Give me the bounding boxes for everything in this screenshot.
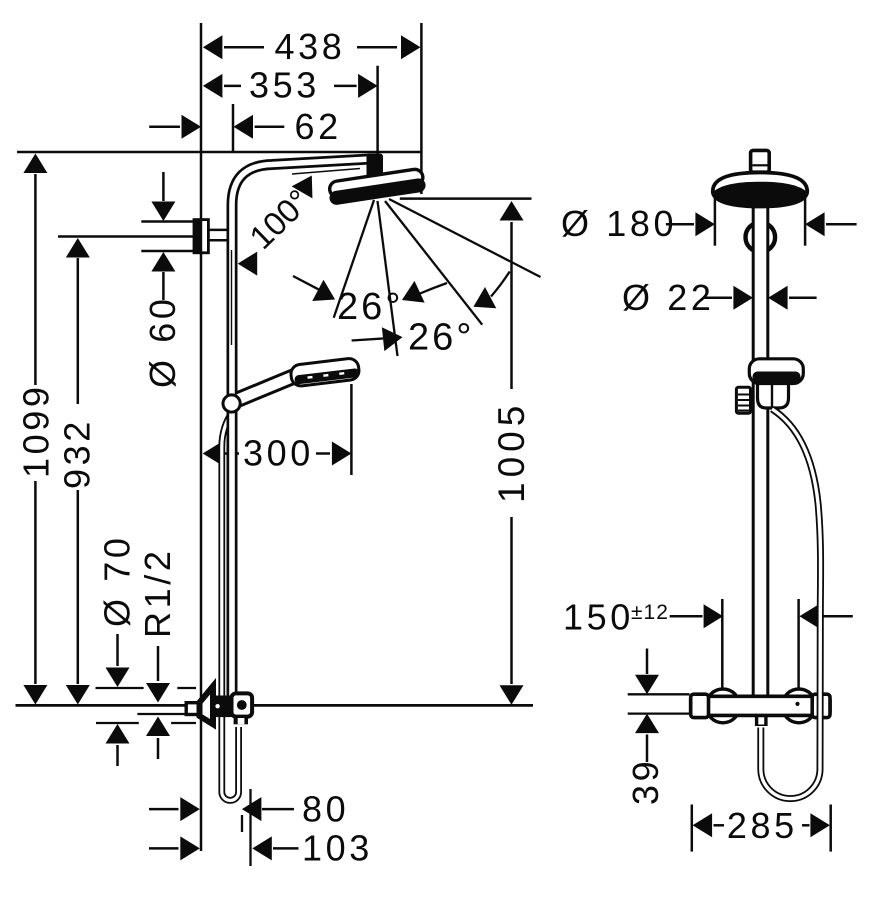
thermostat valve body (right figure) bbox=[691, 694, 830, 717]
spray line 4 bbox=[389, 199, 541, 277]
dimension R1/2 bbox=[137, 548, 186, 759]
svg-text:353: 353 bbox=[249, 65, 320, 106]
riser pipe (right figure) bbox=[753, 171, 768, 697]
dimension diameter 180 bbox=[561, 203, 857, 244]
pivot stub on head (right figure) bbox=[751, 150, 770, 172]
dimension diameter 22 bbox=[622, 277, 817, 318]
wire extension line 62 bbox=[232, 104, 235, 152]
dimension 62 bbox=[149, 106, 342, 147]
dimension 80 bbox=[149, 789, 349, 833]
dimension 150 plus/minus 12 bbox=[563, 597, 853, 638]
dimension angle 100 degrees bbox=[238, 170, 322, 276]
spray line 1 bbox=[334, 200, 374, 318]
dimension 39 bbox=[625, 649, 690, 806]
svg-text:300: 300 bbox=[243, 433, 314, 474]
wire 932 reference line bbox=[58, 235, 194, 238]
dimension angle 26 degrees (right pair) bbox=[352, 272, 510, 359]
dimension 438 bbox=[203, 26, 421, 67]
svg-text:Ø 60: Ø 60 bbox=[142, 296, 183, 388]
dimension diameter 70 bbox=[96, 535, 197, 766]
wire baseline (left figure) bbox=[16, 704, 534, 707]
wall bracket circle (right figure) bbox=[746, 222, 776, 252]
wire extension lines 150 bbox=[722, 599, 798, 691]
overhead shower head (right figure) bbox=[713, 173, 807, 207]
spray line 2 bbox=[378, 201, 398, 356]
svg-text:80: 80 bbox=[302, 789, 349, 830]
hose outlet tab (right figure) bbox=[755, 715, 768, 726]
svg-text:932: 932 bbox=[57, 418, 98, 489]
svg-text:39: 39 bbox=[625, 758, 666, 805]
supply valve (left figure) bbox=[186, 686, 252, 724]
dimension angle 26 degrees (left pair) bbox=[293, 276, 447, 328]
svg-text:62: 62 bbox=[295, 106, 342, 147]
dimension 1099 bbox=[16, 154, 57, 705]
wire extension lines diameter 180 bbox=[715, 196, 805, 246]
svg-text:Ø 70: Ø 70 bbox=[97, 535, 138, 627]
hose (right figure) bbox=[761, 409, 821, 799]
overhead shower head (left figure) bbox=[327, 154, 426, 206]
hand shower (left figure) bbox=[290, 358, 360, 387]
wire 1005 top reference line bbox=[400, 197, 532, 200]
dimension diameter 60 bbox=[142, 172, 183, 388]
svg-text:285: 285 bbox=[727, 805, 798, 846]
svg-text:Ø 180: Ø 180 bbox=[561, 203, 677, 244]
svg-text:150: 150 bbox=[563, 597, 634, 638]
shower riser pipe and arm (left figure) bbox=[232, 159, 371, 697]
dimension 103 bbox=[149, 789, 373, 869]
wire extension line 438 right bbox=[420, 23, 423, 194]
svg-text:1005: 1005 bbox=[491, 401, 532, 503]
dimension 932 bbox=[57, 238, 98, 705]
svg-text:26°: 26° bbox=[337, 286, 403, 328]
dimension 300 bbox=[203, 384, 352, 475]
svg-text:R1/2: R1/2 bbox=[137, 548, 178, 638]
wire extension line 353 bbox=[376, 66, 379, 155]
wire wall reference line (left figure) bbox=[200, 23, 203, 851]
svg-text:±12: ±12 bbox=[631, 601, 669, 624]
svg-text:1099: 1099 bbox=[16, 384, 57, 479]
dimension 353 bbox=[203, 65, 378, 106]
svg-text:438: 438 bbox=[275, 26, 346, 67]
svg-text:103: 103 bbox=[302, 828, 373, 869]
wire top reference line bbox=[17, 151, 421, 154]
svg-text:Ø 22: Ø 22 bbox=[622, 277, 714, 318]
slider joint of hand shower (left figure) bbox=[223, 376, 296, 413]
spray line 3 bbox=[385, 201, 482, 325]
hose (left figure, hand shower hose) bbox=[222, 411, 239, 800]
dimension 1005 bbox=[491, 201, 532, 705]
hand shower in holder (right figure) bbox=[736, 359, 803, 414]
svg-text:26°: 26° bbox=[408, 317, 474, 359]
wall escutcheon of shower arm (left figure) bbox=[141, 219, 228, 254]
dimension 285 bbox=[692, 805, 831, 852]
supply connection circles (right figure) bbox=[706, 689, 816, 723]
